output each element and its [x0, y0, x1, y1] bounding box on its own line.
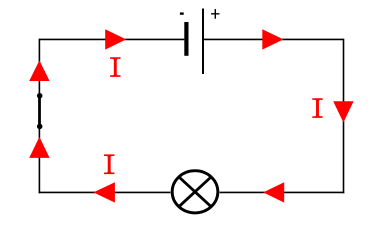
- current arrow top-left (right-pointing): [105, 29, 126, 49]
- battery minus label: [180, 12, 184, 14]
- current arrow left upper (up-pointing): [29, 60, 49, 81]
- current arrow bottom-left (left-pointing): [93, 182, 115, 202]
- lamp circle: [172, 171, 218, 213]
- battery plus label: [211, 9, 219, 19]
- current arrow right side (down-pointing): [333, 101, 353, 122]
- current arrow top-right (right-pointing): [262, 29, 283, 49]
- current label I bottom-left: [104, 154, 114, 174]
- battery positive plate: [202, 9, 204, 75]
- wire left side: [38, 39, 40, 194]
- wire bottom-right segment: [220, 191, 345, 193]
- wire top-left segment: [39, 38, 184, 40]
- wire right side: [343, 39, 345, 194]
- current arrow left lower (up-pointing): [29, 137, 49, 158]
- current label I top-left: [110, 57, 120, 77]
- node junction dot lower: [37, 124, 43, 129]
- current label I right: [312, 98, 322, 118]
- wire thick segment between junction dots: [38, 96, 41, 127]
- wire bottom-left segment: [39, 191, 171, 193]
- lamp cross: [179, 177, 211, 207]
- wire top-right segment: [204, 38, 344, 40]
- battery negative plate: [184, 22, 188, 56]
- node junction dot upper: [37, 93, 43, 99]
- current arrow bottom-right (left-pointing): [263, 182, 284, 202]
